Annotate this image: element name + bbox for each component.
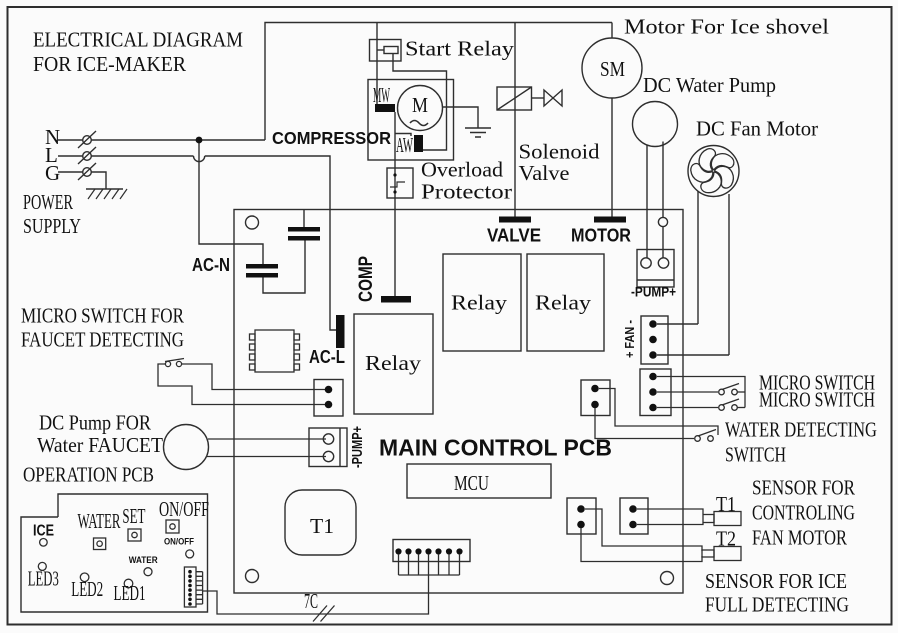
ground earth symbol: [86, 188, 123, 190]
svg-text:DC Water Pump: DC Water Pump: [643, 73, 776, 97]
valve bowtie symbol: [532, 97, 545, 99]
svg-text:DC Fan Motor: DC Fan Motor: [696, 117, 818, 141]
ON/OFF button: [166, 520, 179, 533]
capacitor C2: [246, 264, 278, 269]
wire to switch 2: [657, 407, 718, 409]
svg-text:ICE: ICE: [33, 523, 54, 540]
wire ribbon to operation pcb: [203, 575, 429, 614]
operation PCB board outline: [21, 494, 208, 612]
wire water switch bottom: [595, 408, 694, 439]
sensor T1 body: [703, 515, 714, 523]
DC water pump circle: [633, 102, 678, 147]
svg-text:+ FAN -: + FAN -: [622, 320, 637, 358]
svg-text:FAUCET DETECTING: FAUCET DETECTING: [21, 328, 184, 352]
svg-text:-PUMP+: -PUMP+: [349, 426, 366, 468]
wire micro switch common: [657, 377, 745, 408]
wire fan conn to fan motor: [657, 323, 698, 325]
wire branch to start relay / MW: [376, 23, 378, 105]
svg-text:T2: T2: [716, 527, 736, 551]
LED2 hole: [80, 573, 89, 582]
wire AC-N to capacitors: [263, 240, 305, 293]
MOTOR pad: [594, 217, 626, 223]
svg-text:Relay: Relay: [535, 291, 592, 315]
mounting hole bottom-right: [661, 572, 674, 585]
wire AC-N vertical from junction: [199, 140, 263, 264]
transformer T1 box: [285, 490, 356, 555]
ICE led hole: [40, 539, 48, 547]
ribbon slash marks: [313, 606, 335, 622]
svg-text:AC-N: AC-N: [192, 255, 230, 275]
wire to switch 1: [657, 391, 718, 393]
svg-text:LED2: LED2: [71, 577, 103, 601]
svg-text:SM: SM: [600, 57, 625, 81]
WATER button: [94, 538, 106, 550]
svg-text:LED3: LED3: [28, 567, 59, 591]
wire fan left lead: [697, 192, 699, 325]
svg-text:DC Pump FOR: DC Pump FOR: [39, 411, 151, 435]
wire G line: [58, 172, 106, 189]
svg-text:FAN MOTOR: FAN MOTOR: [752, 526, 847, 550]
wire faucet sw right to connector: [182, 364, 325, 390]
svg-text:MOTOR: MOTOR: [571, 226, 631, 246]
mounting hole bottom-left: [246, 570, 259, 583]
junction node dot: [196, 137, 203, 144]
wire MW stub: [395, 134, 411, 137]
COMP pad: [381, 296, 411, 303]
svg-text:MW: MW: [373, 83, 390, 107]
fan blades icon: [682, 142, 743, 202]
connector J-PUMP right: [637, 250, 674, 288]
svg-text:CONTROLING: CONTROLING: [752, 501, 855, 525]
svg-text:LED1: LED1: [114, 581, 146, 605]
motor M circle: [398, 86, 443, 131]
svg-text:-PUMP+: -PUMP+: [631, 284, 676, 300]
svg-text:SWITCH: SWITCH: [725, 443, 786, 467]
svg-text:T1: T1: [310, 514, 334, 538]
wire N line: [58, 139, 265, 141]
LED1 hole: [124, 579, 133, 588]
wire SM motor drop: [611, 23, 613, 39]
svg-text:MICRO SWITCH: MICRO SWITCH: [759, 388, 875, 412]
svg-text:AC-L: AC-L: [309, 347, 345, 367]
connector J-T1a: [567, 498, 596, 534]
wire MW to overload to COMP pad: [394, 112, 396, 296]
DC pump motor circle: [164, 425, 209, 470]
wire pump to connector bottom: [207, 456, 326, 458]
svg-text:T1: T1: [716, 492, 736, 516]
wire pump right lead: [662, 142, 664, 259]
svg-text:SENSOR FOR ICE: SENSOR FOR ICE: [705, 569, 847, 593]
switch S-G: [83, 168, 92, 177]
svg-text:Valve: Valve: [519, 161, 570, 185]
wire header pins comb: [399, 554, 460, 575]
svg-text:Motor For Ice shovel: Motor For Ice shovel: [624, 15, 829, 39]
switch S-L: [83, 152, 92, 161]
wire pump to connector top: [208, 438, 326, 440]
connector J-PUMP left: [309, 428, 347, 467]
motor SM circle: [582, 38, 642, 98]
wire solenoid feed: [514, 23, 516, 218]
svg-text:G: G: [45, 161, 60, 185]
WATER led hole: [144, 568, 152, 576]
svg-text:ON/OFF: ON/OFF: [159, 497, 209, 521]
terminal AW pad: [414, 135, 423, 152]
wire fan right lead: [728, 194, 730, 355]
connector J-FS: [314, 380, 343, 417]
SET button: [128, 529, 141, 541]
ON/OFF led hole: [186, 550, 194, 558]
relay K4 box: [527, 254, 604, 351]
svg-text:SENSOR FOR: SENSOR FOR: [752, 476, 855, 500]
overload protector OL box: [387, 168, 413, 198]
svg-text:Relay: Relay: [451, 291, 508, 315]
terminal MW pad: [375, 104, 395, 112]
wire faucet sw left to connector: [158, 364, 325, 405]
svg-text:COMPRESSOR: COMPRESSOR: [272, 128, 391, 148]
wire N feed up-over to loads: [265, 23, 612, 141]
inline connector bead: [658, 217, 667, 226]
start relay K1 box: [370, 40, 402, 62]
svg-text:COMP: COMP: [356, 256, 377, 302]
svg-text:WATER: WATER: [78, 509, 121, 533]
connector J7 header: [393, 540, 470, 562]
svg-text:SUPPLY: SUPPLY: [23, 214, 81, 238]
wire start relay to AW: [393, 54, 447, 151]
svg-text:AW: AW: [396, 133, 413, 157]
VALVE pad: [499, 217, 531, 223]
wire to sensor T2: [585, 509, 702, 551]
LED3 hole: [38, 562, 46, 570]
svg-text:Water FAUCET: Water FAUCET: [37, 433, 163, 457]
relay K3 box: [443, 254, 521, 351]
mounting hole top-left: [246, 216, 259, 229]
solenoid valve coil box: [497, 87, 532, 110]
wire to sensor T1: [637, 509, 703, 514]
connector J-FAN: [641, 316, 668, 364]
wire L line to AC-L drop: [205, 156, 336, 330]
hop of AC-N wire over L: [194, 156, 205, 162]
IC U1 chip: [250, 330, 300, 372]
faucet micro switch SW4: [165, 361, 170, 366]
AC-L pad: [336, 315, 345, 348]
connector J-SW (micro switches): [640, 369, 671, 416]
svg-text:WATER DETECTING: WATER DETECTING: [725, 418, 877, 442]
water detecting switch SW3: [695, 436, 701, 442]
wire pump left lead: [646, 145, 648, 258]
ground symbol at compressor: [465, 128, 491, 137]
svg-text:SET: SET: [122, 504, 145, 528]
svg-text:Solenoid: Solenoid: [519, 140, 601, 164]
compressor box: [368, 80, 454, 161]
connector J8 on operation PCB: [184, 567, 202, 607]
svg-text:Relay: Relay: [365, 351, 422, 375]
wire L line left of hop: [58, 155, 194, 157]
svg-text:POWER: POWER: [23, 190, 73, 214]
svg-text:MAIN CONTROL PCB: MAIN CONTROL PCB: [379, 435, 612, 461]
svg-text:FULL DETECTING: FULL DETECTING: [705, 593, 849, 617]
svg-text:WATER: WATER: [129, 555, 158, 565]
switch S-N: [83, 136, 92, 145]
tilde in motor: [410, 121, 428, 126]
micro switch SW2: [719, 405, 725, 411]
svg-text:FOR ICE-MAKER: FOR ICE-MAKER: [33, 52, 186, 76]
svg-text:Protector: Protector: [421, 180, 512, 204]
svg-text:VALVE: VALVE: [487, 226, 541, 246]
svg-text:M: M: [412, 93, 428, 117]
MCU box: [407, 464, 551, 498]
sensor T2 body: [702, 550, 714, 557]
svg-text:OPERATION PCB: OPERATION PCB: [23, 463, 154, 487]
connector J-T1b: [620, 498, 648, 534]
svg-text:MCU: MCU: [454, 471, 489, 495]
main control PCB board outline: [234, 210, 683, 594]
relay K2 box: [354, 314, 433, 414]
capacitor C1: [288, 227, 320, 232]
svg-text:Start Relay: Start Relay: [405, 37, 515, 61]
DC fan motor circle: [688, 146, 739, 197]
wire water switch top: [599, 389, 718, 436]
svg-text:MICRO SWITCH FOR: MICRO SWITCH FOR: [21, 304, 184, 328]
wire M to ground: [443, 107, 479, 128]
svg-text:Overload: Overload: [421, 158, 504, 182]
micro switch SW1: [719, 389, 725, 395]
connector J-WD (water detect): [581, 380, 610, 416]
svg-text:ELECTRICAL DIAGRAM: ELECTRICAL DIAGRAM: [33, 28, 243, 52]
svg-text:ON/OFF: ON/OFF: [164, 537, 194, 548]
svg-text:7C: 7C: [304, 589, 318, 613]
